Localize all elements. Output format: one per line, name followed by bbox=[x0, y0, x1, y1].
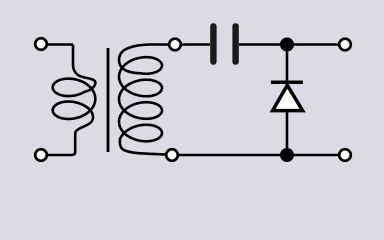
wire: node A to top-right output terminal bbox=[287, 43, 345, 46]
terminal: output bottom-right bbox=[339, 149, 351, 161]
terminal: primary top-left bbox=[35, 38, 47, 50]
junction node B bbox=[280, 148, 294, 162]
terminal: secondary bottom bbox=[166, 149, 178, 161]
capacitor C1 left plate bbox=[210, 23, 216, 64]
transformer core bbox=[107, 48, 110, 152]
diode D1 cathode bar bbox=[271, 80, 303, 84]
wire: diode D1 anode down to node B bbox=[286, 112, 289, 155]
terminal: primary bottom-left bbox=[35, 149, 47, 161]
diode D1 anode triangle bbox=[273, 85, 303, 110]
wire: top-left terminal to primary winding bbox=[48, 43, 73, 46]
wire: node B to bottom-right output terminal bbox=[287, 154, 345, 157]
wire: capacitor C1 to node A bbox=[239, 43, 287, 46]
transformer primary winding L1 (2 loops, with lead wires) bbox=[48, 45, 95, 156]
wire: node A down to diode D1 cathode bbox=[286, 45, 289, 81]
wire: secondary bottom terminal to node B bbox=[179, 154, 287, 157]
terminal: secondary top bbox=[169, 39, 181, 51]
transformer secondary winding L2 (4 loops, with lead wires) bbox=[119, 45, 175, 155]
terminal: output top-right bbox=[339, 39, 351, 51]
wire: secondary top terminal to capacitor C1 bbox=[182, 43, 210, 46]
capacitor C1 right plate bbox=[232, 23, 238, 64]
junction node A bbox=[280, 38, 294, 52]
